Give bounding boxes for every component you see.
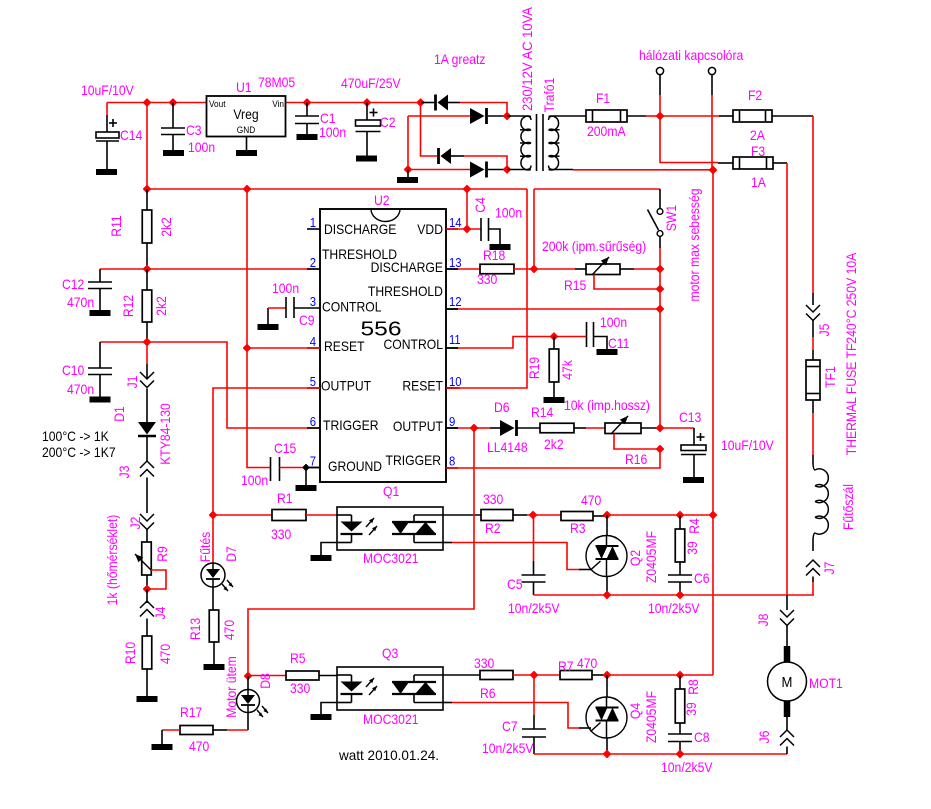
- capacitor C5: [522, 515, 546, 595]
- connector J8: [780, 595, 794, 646]
- svg-text:R4: R4: [686, 518, 702, 534]
- label J2: [127, 516, 143, 529]
- label C14 value: [81, 82, 134, 98]
- resistor R8: [675, 675, 685, 734]
- svg-text:1: 1: [310, 215, 316, 230]
- switch SW1: [648, 189, 663, 269]
- label SW1: [663, 205, 679, 232]
- pin 2: [310, 255, 316, 270]
- label temp info: [42, 428, 116, 460]
- svg-text:KTY84-130: KTY84-130: [157, 403, 173, 465]
- svg-text:Trafó1: Trafó1: [541, 77, 557, 112]
- wire bridge left-down: [421, 103, 438, 157]
- label R6: [474, 655, 496, 701]
- svg-text:R9: R9: [154, 546, 170, 562]
- label C15: [241, 440, 296, 488]
- svg-text:12: 12: [449, 294, 462, 309]
- capacitor C4: [481, 218, 511, 250]
- wire R18-R15: [514, 268, 586, 270]
- wire Q3-R6: [443, 674, 480, 676]
- svg-text:8: 8: [449, 454, 455, 469]
- node R8 top: [677, 672, 684, 679]
- svg-text:1A greatz: 1A greatz: [434, 51, 486, 67]
- label C12: [62, 276, 94, 310]
- capacitor C13: [660, 428, 706, 483]
- label R16: [625, 451, 647, 467]
- connector J3: [140, 461, 154, 513]
- svg-text:F3: F3: [751, 143, 765, 159]
- svg-text:J8: J8: [755, 613, 771, 626]
- svg-text:DISCHARGE: DISCHARGE: [324, 221, 396, 237]
- svg-text:2k2: 2k2: [158, 217, 174, 237]
- label D1: [111, 403, 173, 465]
- node R15-right: [657, 266, 664, 273]
- node R16-wiper: [657, 446, 664, 453]
- svg-text:Q2: Q2: [627, 550, 643, 566]
- svg-text:OUTPUT: OUTPUT: [321, 378, 371, 394]
- svg-text:DISCHARGE: DISCHARGE: [371, 259, 443, 275]
- node bridge-top: [417, 99, 424, 106]
- connector J6: [780, 717, 794, 754]
- wire pin9-R5: [248, 428, 474, 676]
- capacitor C11: [554, 322, 618, 355]
- op-amp U2 556 timer: [320, 209, 446, 482]
- potentiometer R16: [605, 416, 660, 449]
- capacitor C1: [295, 103, 319, 141]
- label R8: [683, 679, 701, 716]
- svg-text:R6: R6: [480, 685, 496, 701]
- label J7: [821, 561, 837, 574]
- svg-text:Fűtés: Fűtés: [197, 532, 213, 563]
- label R9: [104, 515, 170, 606]
- svg-text:Fűtőszál: Fűtőszál: [840, 484, 856, 530]
- wire Q1-Q2 gate: [443, 543, 591, 570]
- svg-text:100n: 100n: [495, 205, 522, 221]
- resistor R4: [675, 515, 685, 575]
- svg-text:100n: 100n: [188, 139, 215, 155]
- svg-text:D7: D7: [223, 546, 239, 562]
- svg-text:R11: R11: [108, 215, 124, 237]
- fuse TF1 thermal: [806, 360, 820, 400]
- pin 4: [310, 334, 316, 349]
- svg-text:R13: R13: [187, 618, 203, 640]
- wire Q1-R2: [443, 514, 481, 516]
- node VDD-pin4: [244, 186, 251, 193]
- svg-text:39: 39: [683, 702, 699, 716]
- svg-text:2k2: 2k2: [153, 296, 169, 316]
- wire TF1-heater: [812, 400, 814, 455]
- node D8-R5: [245, 673, 252, 680]
- svg-text:J1: J1: [124, 375, 140, 388]
- label R19: [526, 357, 575, 380]
- label C8: [661, 729, 713, 775]
- label J4: [152, 606, 168, 619]
- pin 5: [310, 374, 316, 389]
- resistor R13: [204, 610, 225, 670]
- pin 1: [307, 215, 320, 230]
- pin 10: [449, 374, 462, 389]
- node VDD-C4: [464, 186, 471, 193]
- ground U1: [236, 137, 257, 157]
- svg-text:10k (imp.hossz): 10k (imp.hossz): [564, 397, 650, 413]
- node pin12: [657, 306, 664, 313]
- capacitor C6: [668, 575, 692, 595]
- svg-text:470: 470: [157, 644, 173, 664]
- node R16-right: [657, 425, 664, 432]
- label transformer rating: [519, 6, 535, 111]
- label mains: [639, 47, 743, 63]
- capacitor C2: [356, 103, 381, 162]
- svg-text:100n: 100n: [241, 472, 268, 488]
- wire F1-F2: [660, 115, 719, 117]
- wire pin14: [446, 189, 481, 229]
- label R18: [477, 247, 505, 287]
- svg-text:J4: J4: [152, 606, 168, 619]
- diode bridge D-b: [408, 108, 507, 124]
- voltage regulator U1: [207, 96, 286, 137]
- resistor R14: [540, 423, 574, 433]
- wire mains-return: [712, 170, 714, 675]
- svg-text:2k2: 2k2: [544, 436, 564, 452]
- diode bridge D-c: [439, 148, 508, 170]
- optocoupler Q1: [337, 507, 443, 550]
- label C10: [62, 362, 94, 397]
- pin 14: [449, 215, 462, 230]
- label F1: [587, 90, 626, 139]
- svg-text:U2: U2: [374, 192, 390, 208]
- svg-text:C6: C6: [694, 570, 710, 586]
- diode bridge D-d: [408, 116, 507, 178]
- svg-text:11: 11: [449, 332, 461, 347]
- label motor max: [686, 188, 702, 301]
- label C14: [120, 127, 142, 143]
- wire snubber rail Q4: [534, 753, 787, 755]
- svg-text:J2: J2: [127, 516, 143, 529]
- label Q1: [363, 483, 419, 566]
- LED D8: [237, 676, 269, 730]
- label C2: [380, 114, 396, 130]
- svg-text:470: 470: [581, 492, 601, 508]
- svg-text:R12: R12: [120, 295, 136, 317]
- label C1: [319, 110, 346, 140]
- svg-text:C9: C9: [299, 312, 315, 328]
- capacitor C12: [88, 269, 147, 316]
- svg-text:10n/2k5V: 10n/2k5V: [661, 759, 713, 775]
- connector J5: [806, 293, 820, 360]
- svg-text:3: 3: [310, 294, 316, 309]
- wire 5V rail top: [107, 102, 421, 104]
- motor MOT1: [768, 646, 807, 717]
- svg-text:Motor ütem: Motor ütem: [223, 656, 239, 718]
- wire SW1 rail: [534, 189, 660, 269]
- svg-text:C14: C14: [120, 127, 142, 143]
- svg-text:7: 7: [310, 454, 316, 469]
- label R3: [570, 492, 601, 536]
- svg-text:R10: R10: [122, 642, 138, 664]
- node C8 bottom: [677, 751, 684, 758]
- svg-text:F1: F1: [596, 90, 610, 106]
- wire F3-motor: [786, 163, 788, 595]
- node Q4 bottom: [604, 751, 611, 758]
- svg-text:R8: R8: [685, 679, 701, 695]
- resistor R17: [152, 726, 249, 751]
- node VDD-R11: [144, 186, 151, 193]
- wire R16-out: [641, 427, 660, 429]
- resistor R7: [560, 671, 607, 680]
- wire VDD rail: [147, 103, 527, 389]
- label Traf61: [541, 77, 557, 112]
- svg-text:Vreg: Vreg: [233, 106, 258, 122]
- transistor Q4 triac: [586, 675, 627, 754]
- svg-text:Q1: Q1: [383, 483, 399, 499]
- resistor R2: [481, 510, 561, 521]
- label D7: [197, 532, 239, 563]
- label R10: [122, 642, 173, 664]
- label C5: [507, 576, 560, 616]
- svg-text:motor max sebesség: motor max sebesség: [686, 188, 702, 301]
- wire Q2 top: [607, 514, 713, 516]
- label Q2: [627, 531, 659, 583]
- label C13: [679, 409, 774, 453]
- label D8: [223, 656, 273, 718]
- svg-text:1k (hőmérséklet): 1k (hőmérséklet): [104, 515, 120, 606]
- wire transformer-primary-bottom: [573, 169, 713, 171]
- node 5V-C14: [144, 99, 177, 106]
- svg-text:TF1: TF1: [822, 366, 838, 388]
- label R2: [483, 491, 503, 536]
- wire Q3-Q4 gate: [443, 703, 591, 729]
- label J8: [755, 613, 771, 626]
- svg-text:R18: R18: [483, 247, 505, 263]
- fuse F1: [586, 110, 660, 122]
- label R16 value: [564, 397, 650, 413]
- svg-text:100°C -> 1K: 100°C -> 1K: [42, 428, 109, 444]
- svg-text:MOT1: MOT1: [809, 675, 843, 691]
- fuse F3: [718, 157, 787, 169]
- resistor R12: [142, 269, 152, 342]
- label C3: [186, 122, 215, 155]
- resistor R5: [248, 671, 337, 680]
- potentiometer R15: [586, 257, 660, 289]
- svg-text:THERMAL FUSE TF240°C 250V 10A: THERMAL FUSE TF240°C 250V 10A: [843, 252, 859, 455]
- capacitor C7: [522, 675, 546, 754]
- svg-text:CONTROL: CONTROL: [384, 336, 444, 352]
- svg-text:LL4148: LL4148: [487, 439, 528, 455]
- inductor heater coil: [813, 455, 828, 551]
- capacitor C8: [668, 734, 692, 754]
- svg-text:100n: 100n: [600, 314, 627, 330]
- wire R14-R16: [574, 427, 605, 429]
- svg-text:OUTPUT: OUTPUT: [393, 418, 443, 434]
- label D6: [487, 399, 528, 455]
- svg-text:470n: 470n: [67, 294, 94, 310]
- svg-text:R7: R7: [558, 658, 574, 674]
- svg-text:C15: C15: [274, 440, 296, 456]
- svg-text:D1: D1: [111, 406, 127, 422]
- svg-text:R5: R5: [290, 650, 306, 666]
- resistor R10: [137, 636, 158, 702]
- svg-text:C11: C11: [608, 335, 630, 351]
- node F1-out: [657, 113, 664, 120]
- svg-text:470: 470: [577, 655, 597, 671]
- terminal mains-1: [656, 67, 663, 113]
- svg-text:C3: C3: [186, 122, 202, 138]
- wire pin6: [147, 342, 320, 428]
- resistor R3: [561, 512, 607, 521]
- svg-text:Q3: Q3: [382, 645, 398, 661]
- svg-text:330: 330: [477, 271, 497, 287]
- svg-text:D6: D6: [494, 399, 510, 415]
- svg-text:Q4: Q4: [627, 703, 643, 719]
- diode D6: [478, 420, 540, 436]
- svg-text:TRIGGER: TRIGGER: [323, 417, 379, 433]
- wire F2-heater: [812, 116, 814, 293]
- svg-text:D8: D8: [257, 673, 273, 689]
- node R9-J4: [144, 586, 151, 593]
- label R15: [564, 277, 586, 293]
- svg-text:C5: C5: [507, 576, 523, 592]
- connector J7: [806, 560, 820, 595]
- svg-text:10: 10: [449, 374, 462, 389]
- connector J1: [140, 342, 154, 388]
- svg-text:M: M: [782, 674, 793, 691]
- label C7: [482, 718, 534, 756]
- svg-text:GND: GND: [237, 125, 256, 136]
- label C2 value: [341, 75, 401, 91]
- svg-text:10n/2k5V: 10n/2k5V: [648, 600, 700, 616]
- wire R6-R7: [534, 674, 560, 676]
- label MOT1: [809, 675, 843, 691]
- svg-text:330: 330: [290, 680, 310, 696]
- svg-text:330: 330: [271, 526, 291, 542]
- diode D1: [138, 389, 156, 462]
- label bridge: [434, 51, 486, 67]
- svg-text:C4: C4: [472, 197, 488, 213]
- wire pin8: [446, 449, 660, 468]
- node R15-wiper: [657, 286, 664, 293]
- resistor R1: [213, 510, 337, 521]
- pin 3: [310, 294, 316, 309]
- svg-text:100n: 100n: [319, 124, 346, 140]
- svg-text:Z0405MF: Z0405MF: [643, 691, 659, 743]
- svg-text:RESET: RESET: [402, 378, 443, 394]
- label R14: [531, 404, 564, 452]
- svg-text:10n/2k5V: 10n/2k5V: [482, 740, 534, 756]
- svg-text:R15: R15: [564, 277, 586, 293]
- svg-text:MOC3021: MOC3021: [363, 711, 419, 727]
- node C6 bottom: [677, 592, 684, 599]
- svg-text:CONTROL: CONTROL: [322, 299, 382, 315]
- label C6: [648, 570, 710, 616]
- node pin14: [464, 226, 471, 233]
- ground bridge: [397, 170, 418, 184]
- svg-text:GROUND: GROUND: [328, 458, 382, 474]
- label J6: [756, 730, 772, 743]
- label R11: [108, 215, 174, 237]
- wire pin9: [446, 427, 478, 429]
- pin 8: [449, 454, 455, 469]
- svg-text:330: 330: [483, 491, 503, 507]
- label U2: [374, 192, 390, 208]
- svg-text:R16: R16: [625, 451, 647, 467]
- label R4: [684, 518, 702, 555]
- resistor R11: [142, 189, 152, 269]
- svg-text:J5: J5: [816, 323, 832, 336]
- label C9: [272, 280, 315, 328]
- pin 9: [449, 414, 455, 429]
- label R17: [180, 704, 209, 754]
- capacitor C3: [161, 103, 185, 157]
- pin 7: [310, 454, 316, 469]
- svg-text:2A: 2A: [750, 127, 765, 143]
- transformer Traf61: [507, 114, 586, 171]
- node bridge-tr-bot: [405, 166, 511, 173]
- svg-text:MOC3021: MOC3021: [363, 550, 419, 566]
- svg-text:R19: R19: [526, 357, 542, 379]
- svg-text:47k: 47k: [559, 359, 575, 379]
- wire pin2: [147, 268, 320, 270]
- wire pin5: [213, 388, 320, 515]
- svg-text:C8: C8: [694, 729, 710, 745]
- svg-text:C12: C12: [62, 276, 84, 292]
- label Q3: [363, 645, 419, 727]
- svg-text:10uF/10V: 10uF/10V: [721, 437, 774, 453]
- optocoupler Q3: [337, 667, 443, 710]
- node Q2 bottom: [604, 592, 611, 599]
- svg-text:230/12V AC 10VA: 230/12V AC 10VA: [519, 6, 535, 111]
- svg-text:470n: 470n: [67, 381, 94, 397]
- svg-text:R3: R3: [570, 520, 586, 536]
- label C11: [600, 314, 630, 351]
- svg-text:J7: J7: [821, 561, 837, 574]
- svg-text:RESET: RESET: [324, 338, 365, 354]
- capacitor C15: [271, 457, 307, 481]
- svg-text:Vout: Vout: [209, 99, 226, 110]
- potentiometer R9: [135, 542, 166, 589]
- svg-text:10n/2k5V: 10n/2k5V: [508, 600, 560, 616]
- capacitor C14: [96, 103, 119, 176]
- node pin11-C11: [551, 333, 558, 340]
- svg-text:14: 14: [449, 215, 462, 230]
- svg-text:watt 2010.01.24.: watt 2010.01.24.: [338, 747, 439, 763]
- svg-text:Z0405MF: Z0405MF: [643, 531, 659, 583]
- svg-text:VDD: VDD: [417, 221, 443, 237]
- node pin4: [244, 345, 251, 352]
- pin 13: [449, 255, 462, 270]
- terminal mains-2: [708, 67, 715, 170]
- svg-text:C13: C13: [679, 409, 701, 425]
- svg-text:6: 6: [310, 414, 316, 429]
- label heater: [840, 484, 856, 530]
- svg-text:R2: R2: [485, 520, 501, 536]
- svg-text:200°C -> 1K7: 200°C -> 1K7: [42, 444, 116, 460]
- label R13: [187, 618, 237, 640]
- label R7: [558, 655, 597, 674]
- svg-text:100n: 100n: [272, 280, 299, 296]
- label U1: [236, 74, 295, 95]
- label J3: [116, 465, 132, 478]
- svg-text:U1: U1: [236, 79, 252, 95]
- node divider-mid: [144, 266, 151, 273]
- node 12V-C1-C2: [304, 99, 371, 106]
- wire pin13: [446, 268, 480, 270]
- node transformer-mains: [710, 167, 717, 174]
- svg-text:470: 470: [221, 620, 237, 640]
- wire R15-SW1: [620, 268, 660, 270]
- svg-text:J6: J6: [756, 730, 772, 743]
- label R5: [290, 650, 310, 696]
- node R3-Q2: [604, 512, 611, 519]
